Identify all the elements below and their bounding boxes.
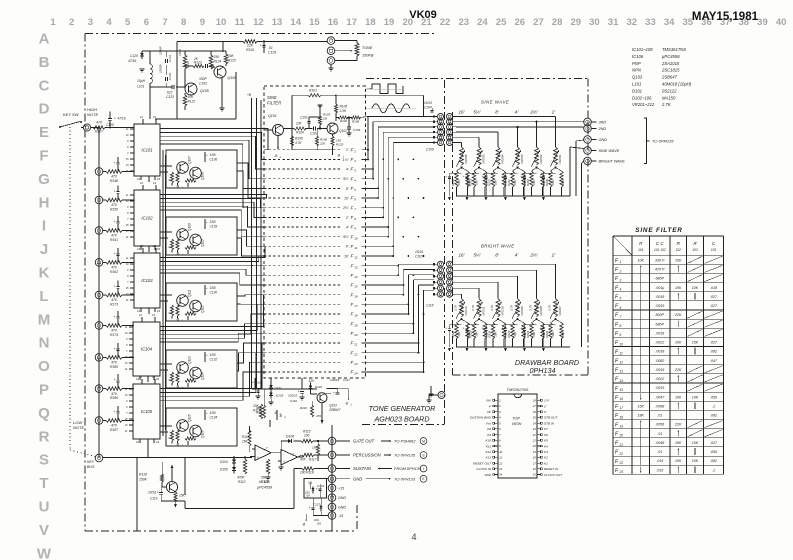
- svg-text:13: 13: [354, 265, 358, 269]
- svg-text:7: 7: [162, 17, 167, 28]
- capacitor C117: [325, 378, 350, 395]
- svg-text:VIEW: VIEW: [512, 422, 522, 426]
- connector I on board edge: [426, 392, 445, 404]
- svg-text:14: 14: [290, 17, 301, 28]
- svg-text:R225: R225: [469, 330, 473, 337]
- node F12 line: [264, 254, 394, 260]
- svg-text:+: +: [298, 390, 300, 394]
- cable connector group bright (C110/C115): [415, 250, 456, 308]
- svg-text:D104: D104: [220, 460, 228, 464]
- svg-text:12: 12: [139, 313, 143, 317]
- pin 6 K8: [487, 427, 501, 431]
- svg-text:G: G: [38, 171, 50, 188]
- pin 9 K11: [486, 444, 501, 448]
- svg-text:.0068: .0068: [655, 404, 664, 408]
- key bus vertical wire: [93, 128, 99, 459]
- svg-text:2.7K: 2.7K: [510, 304, 514, 312]
- connector PERCUSSION: [328, 451, 427, 459]
- node F18 line: [264, 312, 409, 318]
- svg-text:R125: R125: [228, 59, 236, 63]
- svg-text:15: 15: [309, 17, 320, 28]
- resistor R224 10K: [488, 319, 499, 347]
- key input connector pin row 3: [95, 196, 106, 204]
- svg-text:4': 4': [346, 225, 349, 229]
- sine filter dashed box: [264, 86, 366, 378]
- node F7 line: [264, 205, 384, 211]
- svg-text:22K: 22K: [674, 423, 682, 427]
- label SINE WAVE: [481, 100, 509, 105]
- table row F4: [615, 285, 717, 291]
- svg-text:2.7K: 2.7K: [471, 304, 475, 312]
- svg-text:+: +: [482, 175, 484, 179]
- svg-text:14: 14: [620, 379, 624, 383]
- svg-text:C103: C103: [353, 128, 361, 132]
- resistors in keyer 3: [168, 305, 197, 319]
- transistor Q115: [177, 414, 192, 431]
- table row F17: [615, 402, 715, 410]
- svg-text:R224: R224: [488, 330, 492, 337]
- svg-text:L: L: [39, 288, 48, 305]
- svg-text:4': 4': [515, 253, 519, 258]
- svg-text:STB OUT: STB OUT: [544, 416, 559, 420]
- keyer sub-circuit box Q113/Q114: [166, 350, 237, 388]
- wire cable vertical 7: [397, 159, 434, 276]
- svg-text:5⅓': 5⅓': [473, 110, 480, 115]
- svg-text:47/16: 47/16: [118, 117, 126, 121]
- key bus output connector: [87, 454, 137, 531]
- svg-text:K: K: [39, 265, 50, 282]
- svg-text:Q101: Q101: [268, 114, 277, 118]
- svg-text:16: 16: [354, 294, 358, 298]
- svg-text:10K: 10K: [188, 95, 195, 99]
- svg-text:3: 3: [620, 278, 622, 282]
- svg-text:100/16: 100/16: [288, 394, 298, 398]
- wire cable vertical 10: [413, 159, 434, 334]
- svg-text:R223: R223: [507, 330, 511, 337]
- svg-text:.033: .033: [656, 468, 663, 472]
- svg-text:12: 12: [620, 361, 624, 365]
- svg-text:+: +: [157, 491, 159, 495]
- capacitor at key row 7: [114, 311, 120, 326]
- svg-text:.027: .027: [710, 304, 718, 308]
- svg-text:R174: R174: [110, 333, 118, 337]
- svg-text:R: R: [168, 246, 172, 248]
- svg-text:2SB647: 2SB647: [328, 408, 341, 412]
- svg-text:VDD: VDD: [484, 473, 491, 477]
- svg-text:10K: 10K: [675, 286, 682, 290]
- capacitor network col 4 bright: [501, 319, 527, 347]
- svg-text:Q108: Q108: [201, 172, 205, 180]
- svg-text:M: M: [38, 311, 51, 328]
- svg-text:.027: .027: [710, 295, 718, 299]
- brace TO 0PM135: [644, 118, 674, 164]
- resistor R104 22K: [294, 122, 313, 135]
- variable resistor VR209: [510, 299, 525, 321]
- capacitor C130: [204, 285, 217, 295]
- pin 24 STB IN: [532, 421, 555, 425]
- svg-text:15K: 15K: [242, 440, 249, 444]
- svg-text:1⅗': 1⅗': [343, 158, 349, 162]
- ground at oscillator: [219, 78, 224, 111]
- svg-text:Q103: Q103: [632, 75, 643, 80]
- capacitor C124: [305, 481, 325, 498]
- table row F9: [615, 329, 723, 337]
- ground bus sine: [448, 196, 570, 201]
- table row F13: [615, 366, 723, 374]
- svg-text:4: 4: [620, 288, 622, 292]
- svg-text:+: +: [539, 175, 541, 179]
- svg-text:C130: C130: [210, 291, 218, 295]
- pin 3 16': [487, 410, 501, 414]
- svg-text:15K: 15K: [179, 494, 186, 498]
- svg-text:GND: GND: [338, 506, 346, 510]
- bias -B2 at R117: [269, 411, 281, 427]
- svg-text:4': 4': [346, 167, 349, 171]
- capacitor network col 1 bright: [445, 319, 471, 347]
- svg-text:R116: R116: [246, 48, 254, 52]
- svg-text:.022: .022: [166, 91, 173, 95]
- svg-text:24: 24: [353, 372, 358, 376]
- bias arrow -B1 keyer 4: [176, 383, 189, 390]
- svg-text:10µH: 10µH: [137, 79, 146, 83]
- resistor R111 36K: [256, 389, 266, 418]
- svg-text:C136: C136: [210, 158, 218, 162]
- svg-text:R214: R214: [451, 179, 455, 186]
- resistor R123 2K: [185, 57, 204, 68]
- capacitor C121 1000P: [159, 46, 172, 72]
- svg-text:1: 1: [620, 260, 622, 264]
- svg-text:22: 22: [440, 17, 451, 28]
- svg-text:R162: R162: [110, 270, 118, 274]
- svg-text:12: 12: [139, 375, 143, 379]
- svg-text:2': 2': [543, 404, 547, 408]
- svg-text:TO PSH062: TO PSH062: [394, 439, 416, 444]
- svg-text:VR207: VR207: [558, 306, 562, 316]
- node F16 line: [264, 292, 404, 298]
- svg-text:NOTE: NOTE: [73, 425, 84, 430]
- svg-text:C102: C102: [199, 82, 207, 86]
- pin 28 1⅗': [532, 399, 550, 403]
- svg-text:2': 2': [345, 148, 349, 152]
- svg-text:/16: /16: [305, 494, 310, 498]
- svg-text:470: 470: [111, 203, 117, 207]
- svg-text:15: 15: [354, 285, 358, 289]
- resistor R151 470: [106, 229, 134, 242]
- resistor R117 33K: [253, 404, 263, 419]
- svg-text:C116: C116: [290, 399, 297, 403]
- svg-text:2': 2': [345, 216, 349, 220]
- diode D106: [281, 435, 294, 450]
- IC IC101 tone generator divider: [125, 115, 161, 182]
- resistors in keyer 1: [168, 172, 197, 186]
- svg-text:1/50: 1/50: [210, 220, 216, 224]
- svg-text:R148: R148: [110, 179, 118, 183]
- key switch KEY SW: [59, 112, 83, 128]
- title VK09: [409, 9, 437, 21]
- wire bright bus line 3: [456, 276, 518, 299]
- svg-text:Q111: Q111: [188, 289, 192, 297]
- svg-text:SUSTAIN: SUSTAIN: [353, 466, 372, 471]
- svg-text:MA150: MA150: [662, 95, 676, 100]
- svg-text:16: 16: [533, 467, 536, 471]
- svg-text:16': 16': [344, 254, 349, 258]
- capacitor C132: [204, 352, 217, 362]
- node F13 line: [264, 263, 399, 269]
- node F6 line: [264, 196, 379, 202]
- svg-text:D102~106: D102~106: [632, 95, 652, 100]
- potentiometer TUNE 150KB: [355, 43, 374, 58]
- wire cable vertical 12: [423, 197, 434, 372]
- pin 16 RESET IN: [533, 467, 559, 471]
- svg-text:33: 33: [645, 17, 656, 28]
- wire cable vertical 6: [392, 143, 434, 257]
- svg-text:12V: 12V: [309, 379, 316, 383]
- svg-text:150K: 150K: [139, 478, 148, 482]
- svg-text:SUSTAIN BIAS: SUSTAIN BIAS: [470, 416, 492, 420]
- resistor R185 470: [106, 356, 134, 369]
- svg-text:8': 8': [495, 110, 499, 115]
- resistor R107 470: [93, 121, 134, 134]
- svg-text:8': 8': [346, 187, 349, 191]
- svg-text:C119: C119: [150, 497, 158, 501]
- svg-text:33K: 33K: [214, 55, 221, 59]
- svg-text:PERCUSSION: PERCUSSION: [353, 453, 382, 458]
- svg-text:K2: K2: [544, 456, 548, 460]
- pin 18 K2: [533, 456, 548, 460]
- svg-text:R106: R106: [340, 105, 348, 109]
- svg-text:18: 18: [620, 415, 624, 419]
- svg-text:39: 39: [757, 17, 768, 28]
- svg-text:21: 21: [532, 439, 536, 443]
- svg-text:9: 9: [620, 333, 622, 337]
- svg-text:C104: C104: [424, 106, 432, 110]
- svg-text:28: 28: [532, 399, 536, 403]
- svg-text:1/50: 1/50: [210, 286, 216, 290]
- pin 5 Vss: [486, 421, 501, 425]
- square wave symbol: [366, 84, 404, 93]
- connector GND: [328, 475, 427, 483]
- resistor R114 560: [261, 459, 271, 484]
- svg-text:5⅓': 5⅓': [343, 235, 349, 239]
- key input connector pin row 10: [95, 417, 106, 425]
- table row F2: [615, 265, 723, 273]
- svg-text:2.7K: 2.7K: [454, 304, 458, 312]
- svg-text:16': 16': [459, 110, 465, 115]
- node F5 line: [264, 186, 379, 192]
- capacitor at key row 3: [114, 186, 120, 201]
- capacitor C128: [204, 219, 217, 229]
- connector GND: [328, 494, 346, 502]
- svg-text:BRIGHT WAVE: BRIGHT WAVE: [481, 244, 514, 249]
- svg-text:16': 16': [459, 253, 465, 258]
- svg-text:.0047: .0047: [655, 395, 665, 399]
- svg-text:K8: K8: [487, 427, 491, 431]
- svg-text:Q102: Q102: [339, 129, 347, 133]
- ground at tune pins: [328, 68, 333, 71]
- svg-text:BUS: BUS: [87, 465, 95, 469]
- svg-text:10K: 10K: [692, 395, 699, 399]
- svg-text:13: 13: [153, 181, 157, 185]
- bias arrow -B1 keyer 5: [176, 441, 189, 448]
- svg-text:470: 470: [111, 175, 117, 179]
- svg-text:Vss: Vss: [486, 421, 492, 425]
- svg-text:.0016: .0016: [655, 331, 664, 335]
- grid row letters A-W: [37, 31, 52, 560]
- svg-text:10: 10: [499, 450, 502, 454]
- svg-text:IC102: IC102: [141, 216, 153, 221]
- svg-text:I: I: [42, 218, 46, 235]
- table row F5: [615, 293, 718, 301]
- node F9 line: [264, 225, 389, 231]
- oscillator top wire: [155, 41, 327, 119]
- bias -B1 at C117: [338, 389, 353, 407]
- svg-text:24: 24: [477, 17, 488, 28]
- capacitor network col 2 bright: [463, 319, 489, 347]
- svg-text:12: 12: [354, 256, 358, 260]
- inductor L101 10uH: [137, 51, 152, 119]
- bright output collector wire: [582, 162, 584, 348]
- table row F11: [615, 348, 717, 356]
- svg-text:16: 16: [328, 17, 339, 28]
- svg-text:I: I: [423, 467, 424, 471]
- output connector GND: [584, 136, 607, 144]
- svg-text:SINE WAVE: SINE WAVE: [481, 100, 509, 105]
- variable resistor VR208: [529, 299, 544, 321]
- bias arrow -B1 keyer 3: [176, 316, 189, 323]
- pin 21 K5: [532, 439, 548, 443]
- variable resistor VR203: [512, 147, 524, 169]
- variable resistor VR205: [474, 147, 486, 169]
- svg-text:C123: C123: [166, 95, 174, 99]
- svg-text:M: M: [422, 439, 425, 443]
- resistor R103 1M: [317, 105, 330, 129]
- capacitor at key row 8: [114, 343, 120, 358]
- supply rail wires B+: [247, 93, 261, 389]
- svg-text:R213: R213: [469, 179, 473, 186]
- resistor R102 output: [336, 116, 350, 123]
- svg-text:R102: R102: [340, 119, 348, 123]
- diode D102: [269, 384, 282, 392]
- pin 19 K3: [533, 450, 548, 454]
- table ditto arrows R101: [640, 269, 642, 465]
- svg-text:K13: K13: [485, 456, 491, 460]
- svg-text:29: 29: [570, 17, 581, 28]
- svg-text:+: +: [252, 381, 254, 385]
- pin 23 K7: [532, 427, 548, 431]
- svg-text:.082: .082: [710, 459, 717, 463]
- svg-text:101 102: 101 102: [654, 248, 666, 252]
- svg-text:15K: 15K: [692, 341, 699, 345]
- variable resistor VR201: [550, 147, 562, 169]
- svg-text:15K: 15K: [692, 441, 699, 445]
- resistor R213 10K: [469, 168, 480, 197]
- resistor R115 100: [294, 430, 329, 443]
- capacitor at key row 2: [114, 157, 120, 172]
- svg-text:Q109: Q109: [188, 223, 192, 231]
- svg-text:R186: R186: [110, 396, 118, 400]
- svg-text:NOTE: NOTE: [87, 112, 98, 117]
- sustain driver wires: [252, 378, 317, 390]
- svg-text:VR211: VR211: [482, 306, 486, 316]
- svg-text:+: +: [114, 161, 116, 165]
- svg-text:Q103: Q103: [329, 404, 337, 408]
- svg-text:10K: 10K: [675, 459, 682, 463]
- svg-text:101: 101: [638, 248, 644, 252]
- svg-text:L101: L101: [632, 82, 641, 87]
- svg-text:C117: C117: [343, 378, 350, 382]
- capacitor network col 1 sine: [445, 168, 471, 197]
- output connector 2ND: [584, 125, 607, 133]
- svg-text:.0033: .0033: [655, 386, 664, 390]
- pin 7 K9: [487, 433, 501, 437]
- IC IC104 tone generator divider: [124, 313, 160, 382]
- svg-text:23: 23: [458, 17, 469, 28]
- capacitor at key row 4: [114, 216, 120, 231]
- svg-text:7: 7: [620, 315, 622, 319]
- capacitor C136: [204, 152, 217, 162]
- svg-text:13: 13: [499, 467, 502, 471]
- svg-text:4: 4: [411, 532, 416, 542]
- svg-text:5⅓': 5⅓': [473, 253, 480, 258]
- svg-text:KEY SW: KEY SW: [63, 112, 80, 117]
- svg-text:2.7K: 2.7K: [529, 304, 533, 312]
- svg-text:1M: 1M: [323, 117, 328, 121]
- svg-text:1/50: 1/50: [210, 353, 216, 357]
- resistor R112 470K: [237, 459, 247, 484]
- svg-text:R173: R173: [110, 303, 118, 307]
- connector -15: [328, 512, 343, 520]
- transistor Q116: [190, 425, 205, 438]
- svg-text:2⅔': 2⅔': [529, 253, 537, 258]
- svg-text:1/50: 1/50: [210, 411, 216, 415]
- svg-text:Q112: Q112: [201, 305, 205, 313]
- svg-text:0PH134: 0PH134: [530, 366, 556, 375]
- svg-text:R122: R122: [188, 100, 196, 104]
- tone generator board border (dash-dot outline): [85, 34, 444, 532]
- svg-text:40: 40: [776, 17, 787, 28]
- svg-text:C102: C102: [310, 132, 318, 136]
- svg-text:20: 20: [532, 444, 536, 448]
- svg-text:13: 13: [152, 313, 156, 317]
- svg-text:R: R: [168, 437, 172, 439]
- capacitor at key row 10: [114, 406, 120, 421]
- svg-text:O: O: [38, 358, 50, 375]
- ground bus bright: [448, 347, 570, 352]
- wire cable vertical 1: [368, 117, 434, 160]
- svg-text:0S2122: 0S2122: [662, 88, 677, 93]
- key input connector pin row 9: [95, 385, 106, 393]
- svg-text:.0056: .0056: [655, 423, 664, 427]
- svg-text:D101: D101: [315, 385, 323, 389]
- svg-text:23: 23: [353, 362, 358, 366]
- svg-text:SINE WAVE: SINE WAVE: [599, 149, 620, 153]
- variable resistor VR204: [493, 147, 505, 169]
- svg-text:28: 28: [552, 17, 563, 28]
- svg-text:19: 19: [620, 425, 624, 429]
- svg-text:+: +: [114, 117, 116, 121]
- svg-text:TO 0PH133: TO 0PH133: [394, 476, 416, 481]
- svg-text:TOP: TOP: [512, 417, 520, 421]
- svg-text:R185: R185: [110, 365, 118, 369]
- capacitor network col 3 bright: [482, 319, 508, 347]
- svg-text:RESET IN: RESET IN: [544, 467, 559, 471]
- resistor R186 470: [106, 387, 134, 400]
- svg-text:19: 19: [156, 440, 160, 444]
- resistor R212 10K: [488, 168, 499, 197]
- table row F16: [615, 393, 717, 401]
- svg-text:+: +: [539, 327, 541, 331]
- svg-text:10K: 10K: [692, 286, 699, 290]
